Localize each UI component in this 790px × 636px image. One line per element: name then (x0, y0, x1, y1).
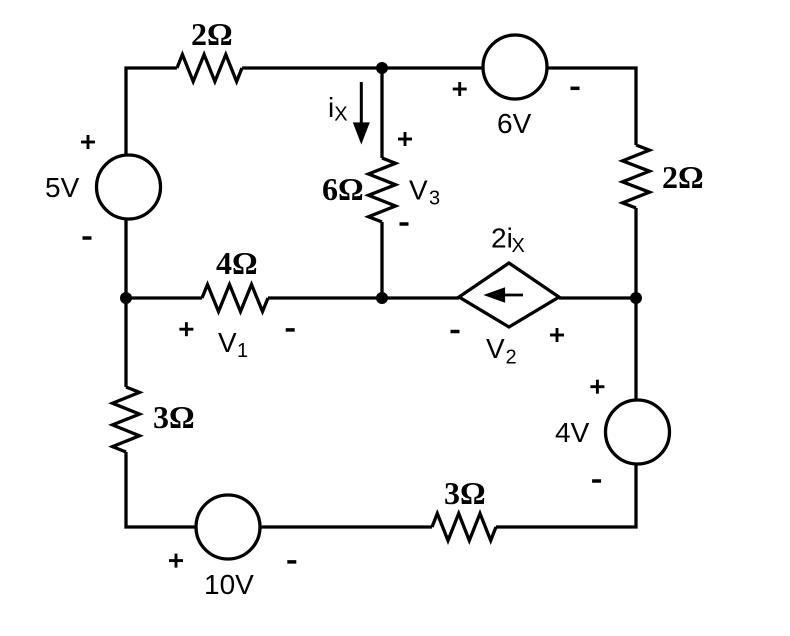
svg-text:6V: 6V (497, 108, 532, 139)
svg-text:2Ω: 2Ω (191, 16, 233, 52)
svg-text:X: X (334, 104, 347, 126)
svg-text:V: V (486, 333, 505, 364)
polarity minus of 5V (83, 236, 92, 240)
wire middle-center (268, 296, 459, 299)
svg-text:V: V (409, 175, 428, 206)
polarity plus of 4V (590, 380, 604, 394)
polarity minus of 4V (592, 479, 601, 483)
wire middle vertical lower (380, 222, 383, 298)
arrow inside dependent source (pointing left) (483, 287, 523, 302)
wire middle vertical upper (380, 68, 383, 158)
wire bottom-left corner (126, 452, 196, 527)
wire right side (634, 208, 637, 400)
svg-text:3Ω: 3Ω (153, 399, 195, 435)
wire left side (124, 219, 127, 387)
polarity minus of V3 (400, 222, 409, 226)
wire bottom-right corner (496, 464, 636, 527)
polarity minus of V2 (451, 330, 460, 334)
node middle-center (376, 292, 388, 304)
wire top-left corner (126, 68, 177, 155)
svg-text:3: 3 (429, 188, 440, 210)
polarity plus of 5V (81, 135, 95, 149)
svg-text:4V: 4V (555, 417, 590, 448)
svg-text:6Ω: 6Ω (322, 171, 364, 207)
svg-text:2Ω: 2Ω (662, 159, 704, 195)
svg-text:2i: 2i (491, 223, 513, 254)
voltage source 6V (483, 35, 547, 99)
voltage source 10V (196, 495, 260, 559)
dependent source 2iX diamond (459, 263, 559, 327)
svg-text:1: 1 (237, 340, 248, 362)
wire middle-left (126, 296, 202, 299)
polarity minus of V1 (286, 328, 295, 332)
resistor 3ohm bottom (432, 514, 496, 541)
resistor 6ohm middle (369, 158, 396, 222)
svg-text:i: i (328, 92, 334, 123)
resistor 2ohm top (177, 55, 242, 82)
polarity plus of 6V (453, 82, 467, 96)
polarity plus of V3 (398, 132, 412, 146)
polarity plus of V1 (179, 322, 193, 336)
wire bottom middle (261, 525, 432, 528)
svg-text:10V: 10V (204, 569, 254, 600)
resistor 2ohm right (623, 145, 650, 208)
node top (junction of 2ohm, 6ohm branch, 6V) (376, 62, 388, 74)
polarity minus of 10V (287, 560, 296, 564)
node middle-left (120, 292, 132, 304)
voltage source 5V (97, 155, 161, 219)
polarity minus of 6V (571, 87, 580, 91)
polarity plus of 10V (169, 554, 183, 568)
wire top middle (242, 66, 483, 69)
svg-text:X: X (512, 235, 525, 257)
polarity plus of V2 (550, 328, 564, 342)
wire top-right corner (547, 68, 636, 145)
node middle-right (630, 292, 642, 304)
svg-text:4Ω: 4Ω (216, 245, 258, 281)
svg-text:V: V (218, 327, 237, 358)
svg-text:2: 2 (506, 347, 517, 369)
svg-text:5V: 5V (45, 172, 80, 203)
voltage source 4V (606, 400, 670, 464)
svg-text:3Ω: 3Ω (444, 475, 486, 511)
resistor 3ohm left (113, 387, 140, 452)
current arrow iX (353, 82, 370, 145)
resistor 4ohm middle (202, 285, 268, 312)
wire middle-right (559, 296, 636, 299)
